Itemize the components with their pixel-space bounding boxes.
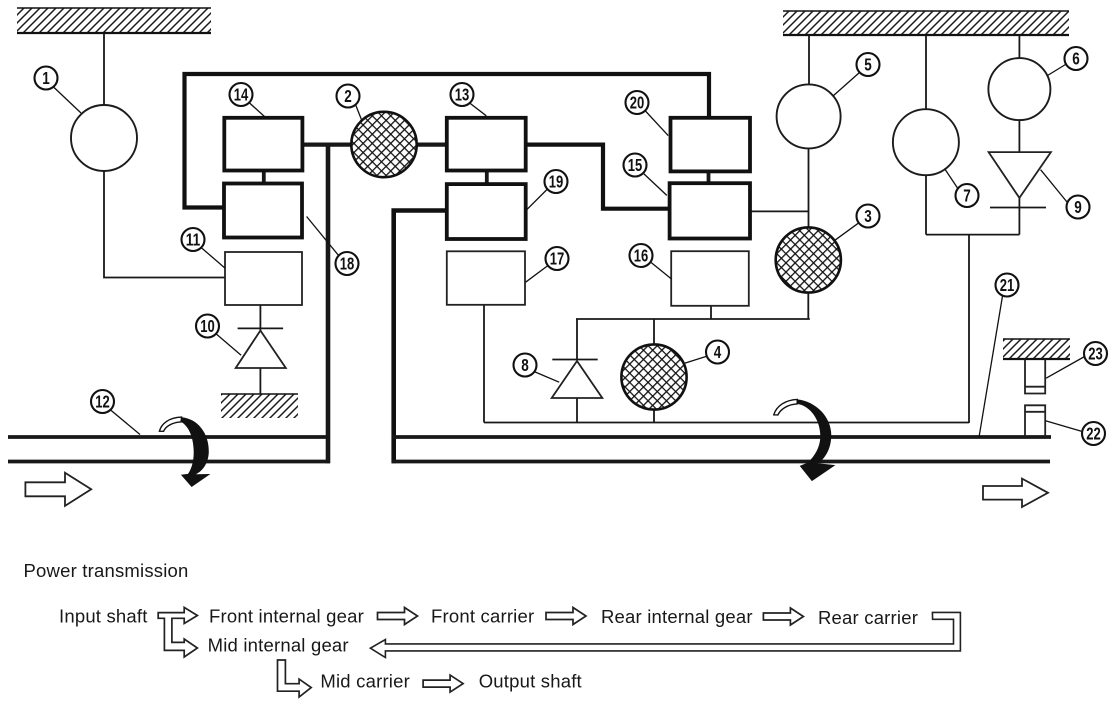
svg-text:Rear internal gear: Rear internal gear — [601, 606, 753, 627]
leader 19 — [527, 189, 548, 210]
svg-text:15: 15 — [628, 155, 643, 175]
wire wall to circle 7 — [925, 35, 927, 109]
output shaft bottom line — [392, 460, 1051, 464]
box 20 — [671, 118, 751, 172]
label 22 — [1082, 422, 1105, 445]
thick frame loop (18 to 20) — [185, 74, 710, 208]
leader 8 — [534, 372, 559, 383]
box 19 — [447, 184, 526, 239]
gear 4 (hatched) — [621, 344, 686, 409]
arrow 2 — [546, 608, 586, 625]
element 22 — [1025, 405, 1045, 436]
svg-text:1: 1 — [42, 68, 50, 88]
label 18 — [336, 252, 359, 275]
one-way clutch 9 (triangle down) — [989, 152, 1051, 198]
svg-text:Front internal gear: Front internal gear — [209, 606, 364, 627]
leader 11 — [201, 247, 226, 268]
wall top-right — [783, 11, 1069, 35]
svg-text:8: 8 — [521, 355, 529, 375]
wire circle 1 down to box 11 — [104, 171, 225, 278]
label 12 — [91, 390, 114, 413]
box 16 — [671, 251, 749, 306]
wire gear 3 down — [807, 293, 809, 319]
wire wall to circle 6 — [1018, 35, 1020, 58]
leader 21 — [979, 296, 1003, 437]
wire wall to circle 5 — [808, 35, 810, 85]
arrow 4 — [423, 675, 463, 692]
connector 13-19 — [485, 171, 489, 185]
svg-text:3: 3 — [864, 206, 872, 226]
label 20 — [626, 91, 649, 114]
svg-text:Rear carrier: Rear carrier — [818, 607, 918, 628]
leader 22 — [1046, 421, 1083, 432]
svg-text:Mid carrier: Mid carrier — [320, 671, 410, 692]
wire circle7 down — [925, 175, 927, 234]
svg-text:13: 13 — [455, 85, 470, 105]
wall small right (above 23) — [1003, 339, 1070, 359]
leader 10 — [216, 334, 241, 355]
circle 5 — [777, 84, 841, 148]
leader 14 — [249, 103, 265, 118]
leader 16 — [651, 262, 672, 279]
svg-text:9: 9 — [1074, 197, 1082, 217]
stem box16 to bus — [710, 306, 712, 319]
label 19 — [545, 170, 568, 193]
svg-text:Output shaft: Output shaft — [479, 671, 582, 692]
svg-text:19: 19 — [549, 172, 564, 192]
svg-text:Input shaft: Input shaft — [59, 606, 148, 627]
leader 4 — [685, 356, 708, 363]
label 17 — [546, 247, 569, 270]
circle 6 — [988, 58, 1050, 120]
svg-text:14: 14 — [234, 85, 249, 105]
label 23 — [1084, 342, 1107, 365]
box 15 — [670, 183, 750, 238]
leader 7 — [945, 169, 958, 188]
leader 3 — [834, 223, 859, 241]
one-way clutch 8 — [552, 359, 597, 361]
thick vertical x393.7 + wire to 19 (mid shaft) — [394, 211, 447, 464]
circle 7 — [893, 109, 959, 175]
label 13 — [451, 83, 474, 106]
svg-text:17: 17 — [550, 249, 565, 269]
gear 2 (hatched) — [351, 112, 416, 177]
stem clutch 10 to ground — [259, 368, 261, 394]
leader 2 — [356, 105, 363, 122]
return path (Rear carrier to Mid internal gear) — [370, 612, 960, 657]
box 18 — [224, 184, 302, 238]
connector 14-18 — [262, 171, 266, 184]
label 1 — [35, 67, 58, 90]
svg-text:5: 5 — [864, 55, 872, 75]
circle 1 (clutch) — [71, 105, 137, 171]
label 16 — [630, 244, 653, 267]
box 13 — [447, 118, 526, 171]
label 8 — [514, 354, 537, 377]
leader 12 — [110, 410, 140, 435]
wire wall to circle 1 — [103, 33, 105, 106]
svg-text:10: 10 — [200, 316, 215, 336]
label 5 — [857, 53, 880, 76]
wire gear 2 to 13 — [417, 143, 447, 147]
leader 23 — [1046, 357, 1085, 379]
label 6 — [1065, 47, 1088, 70]
stem clutch9 down — [1018, 198, 1020, 235]
stem clutch8 to rail — [576, 398, 578, 423]
svg-text:Mid internal gear: Mid internal gear — [208, 635, 349, 656]
input arrow — [25, 473, 91, 506]
input shaft bottom line — [8, 460, 330, 464]
wall top-left — [17, 8, 211, 33]
label 14 — [230, 83, 253, 106]
leader 15 — [643, 173, 667, 195]
svg-text:18: 18 — [340, 254, 355, 274]
leader 1 — [53, 87, 81, 114]
wire 15 right to vertical — [750, 210, 809, 212]
label 2 — [337, 85, 360, 108]
ground under clutch 10 — [221, 394, 298, 418]
svg-text:6: 6 — [1072, 49, 1080, 69]
svg-text:20: 20 — [630, 93, 645, 113]
label 7 — [956, 184, 979, 207]
L-bend arrow to Mid carrier — [278, 660, 312, 697]
element 23 — [1025, 360, 1045, 394]
connector 20-15 — [707, 171, 711, 183]
stem box17 down — [483, 305, 485, 423]
label 9 — [1067, 196, 1090, 219]
svg-text:2: 2 — [344, 86, 352, 106]
output shaft top line — [392, 435, 1052, 439]
fork arrow from Input shaft — [158, 607, 197, 657]
horizontal bus y319 — [576, 318, 810, 320]
arrow 3 — [763, 608, 803, 625]
box 11 — [225, 252, 302, 305]
rotation arrow right (on output shaft) — [797, 399, 836, 481]
leader 5 — [833, 73, 860, 97]
output arrow — [983, 479, 1048, 507]
rail y422.5 — [484, 422, 969, 424]
input shaft top line — [8, 435, 330, 439]
label 4 — [706, 341, 729, 364]
svg-text:22: 22 — [1086, 424, 1101, 444]
wire circle 5 to gear 3 — [808, 148, 810, 227]
leader 20 — [645, 111, 668, 136]
vertical x969 junction-to-rail — [968, 235, 970, 423]
svg-text:Front carrier: Front carrier — [431, 606, 534, 627]
rotation arrow left (on input shaft) — [181, 417, 211, 487]
leader 17 — [526, 266, 548, 283]
drop to gear 4 — [653, 319, 655, 345]
svg-text:23: 23 — [1088, 344, 1103, 364]
box 14 — [224, 118, 302, 171]
svg-text:Power transmission: Power transmission — [24, 560, 189, 581]
leader 13 — [469, 103, 486, 116]
svg-text:7: 7 — [963, 186, 971, 206]
svg-text:12: 12 — [95, 392, 110, 412]
thick vertical x328 (gear2 junction to input shaft end) — [326, 145, 331, 464]
wire 14 to gear 2 — [302, 143, 351, 147]
stem gear4 to rail — [653, 410, 655, 424]
label 11 — [182, 228, 205, 251]
wire circle6 to clutch 9 — [1018, 120, 1020, 152]
svg-text:16: 16 — [634, 246, 649, 266]
label 21 — [996, 274, 1019, 297]
box 17 — [447, 251, 525, 304]
label 3 — [857, 205, 880, 228]
leader 9 — [1041, 170, 1067, 202]
label 15 — [624, 154, 647, 177]
gear 3 (hatched) — [776, 227, 841, 292]
wire 13 to 15 — [526, 145, 670, 209]
leader 18 — [307, 217, 339, 257]
drop to clutch 8 — [576, 319, 578, 360]
label 10 — [196, 315, 219, 338]
leader 6 — [1047, 65, 1066, 77]
horizontal 7/9 junction — [926, 234, 1019, 236]
svg-text:4: 4 — [714, 342, 722, 362]
svg-text:21: 21 — [1000, 275, 1015, 295]
arrow 1 — [378, 608, 418, 625]
stem box11 to clutch 10 — [259, 305, 261, 331]
svg-text:11: 11 — [186, 230, 201, 250]
one-way clutch 10 — [238, 327, 284, 329]
